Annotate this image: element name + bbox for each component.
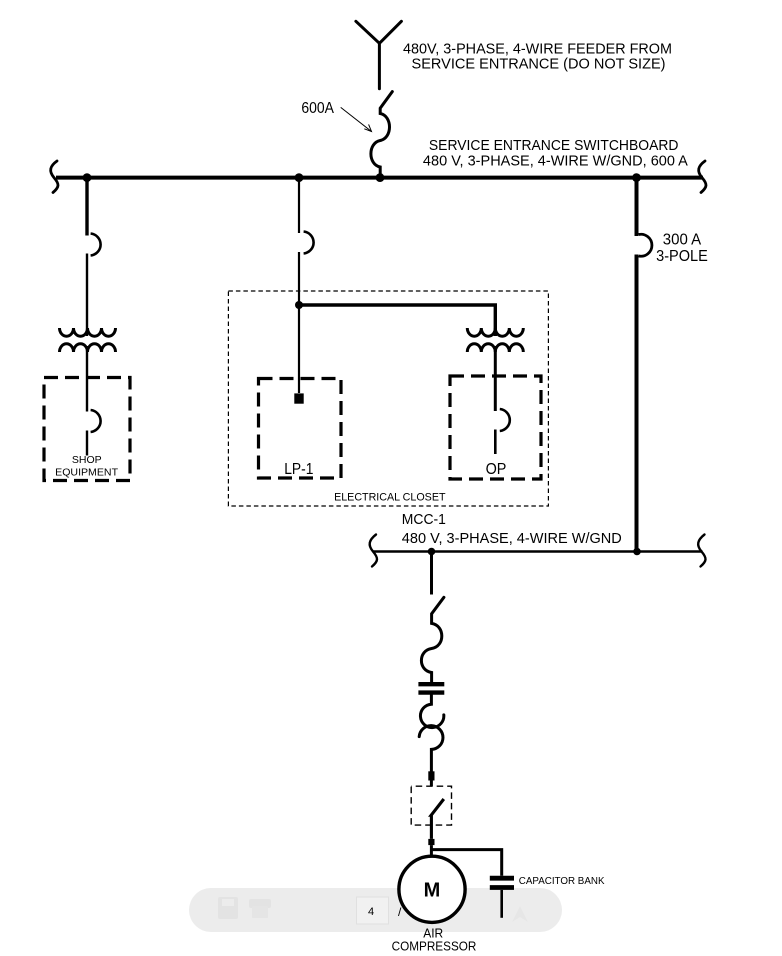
breaker shop panel (91, 410, 101, 432)
junction node left branch (83, 173, 92, 182)
wire compressor feeder upper (430, 552, 433, 595)
connection square lower (428, 839, 434, 845)
main bus (56, 176, 703, 180)
capacitor bank plate lower (490, 885, 514, 890)
wire middle branch upper (298, 178, 300, 233)
svg-text:3-POLE: 3-POLE (656, 248, 708, 265)
wire into disconnect box (430, 781, 433, 787)
junction node right branch (632, 173, 641, 182)
breaker left feeder (91, 234, 101, 256)
breaker OP panel (500, 409, 510, 431)
svg-text:SERVICE ENTRANCE SWITCHBOARD: SERVICE ENTRANCE SWITCHBOARD (429, 138, 679, 154)
MCC bus break left (370, 535, 377, 567)
svg-text:4: 4 (368, 906, 374, 918)
wire left branch to transformer (86, 254, 88, 337)
breaker compressor squiggle (421, 597, 444, 682)
transformer T2 (467, 328, 523, 352)
incoming feeder Y symbol (356, 21, 402, 89)
contactor bar upper (418, 682, 444, 686)
wire left branch upper (85, 178, 88, 236)
closet junction node (295, 301, 303, 309)
svg-text:EQUIPMENT: EQUIPMENT (55, 468, 119, 479)
600A leader arrow (341, 107, 372, 131)
MCC bus (373, 550, 703, 553)
svg-text:SERVICE ENTRANCE (DO NOT SIZE): SERVICE ENTRANCE (DO NOT SIZE) (412, 57, 666, 73)
wire closet feeder to OP transformer (299, 305, 495, 336)
wire to motor (430, 845, 433, 857)
breaker 300A 3-pole (639, 234, 652, 256)
svg-text:LP-1: LP-1 (284, 461, 313, 478)
junction node middle branch (295, 173, 304, 182)
connection square upper (428, 771, 434, 780)
LP-1 main lug connection square (294, 393, 303, 403)
MCC junction node incoming (633, 548, 641, 556)
svg-text:SHOP: SHOP (72, 455, 102, 466)
MCC junction node compressor feeder (428, 548, 436, 556)
disconnect switch box (411, 786, 451, 825)
capacitor bank plate upper (490, 876, 514, 881)
svg-text:480 V, 3-PHASE, 4-WIRE W/GND: 480 V, 3-PHASE, 4-WIRE W/GND (402, 531, 622, 547)
wire below shop breaker (86, 431, 88, 456)
svg-text:MCC-1: MCC-1 (402, 512, 446, 528)
svg-text:M: M (424, 880, 441, 902)
disconnect switch blade (431, 799, 444, 839)
overload coil loops (419, 695, 444, 771)
main breaker 600A squiggle (371, 92, 392, 178)
svg-text:ELECTRICAL CLOSET: ELECTRICAL CLOSET (334, 492, 446, 504)
svg-text:OP: OP (486, 461, 507, 478)
svg-text:480 V, 3-PHASE, 4-WIRE W/GND,: 480 V, 3-PHASE, 4-WIRE W/GND, 600 A (423, 153, 688, 169)
contactor bar lower (418, 690, 444, 694)
capacitor tap wire (431, 850, 501, 876)
wire right branch to MCC (635, 255, 639, 552)
toolbar watermark pill (189, 888, 562, 932)
wire right branch upper (635, 178, 639, 236)
electrical closet boundary (228, 291, 548, 506)
LP-1 panel box (259, 379, 342, 479)
svg-text:600A: 600A (301, 100, 334, 117)
wire transformer T1 secondary (86, 346, 88, 412)
svg-text:480V, 3-PHASE, 4-WIRE FEEDER F: 480V, 3-PHASE, 4-WIRE FEEDER FROM (403, 42, 672, 58)
svg-text:AIR: AIR (423, 926, 443, 940)
svg-text:300 A: 300 A (663, 232, 702, 249)
wire middle branch to closet (298, 252, 300, 305)
transformer T1 (60, 328, 116, 352)
wire below OP breaker (494, 430, 497, 455)
motor M circle (399, 856, 465, 922)
MCC bus break right (698, 535, 705, 567)
svg-text:CAPACITOR BANK: CAPACITOR BANK (519, 876, 605, 887)
bus break left (51, 161, 58, 193)
shop equipment panel box (44, 378, 130, 481)
wire to LP-1 (298, 305, 300, 393)
breaker closet feeder (304, 232, 314, 254)
OP panel box (450, 376, 541, 479)
bus break right (699, 161, 706, 193)
wire transformer T2 secondary (494, 346, 497, 411)
svg-text:COMPRESSOR: COMPRESSOR (392, 940, 477, 954)
junction node main breaker (376, 173, 385, 182)
wire below capacitor (500, 890, 503, 918)
